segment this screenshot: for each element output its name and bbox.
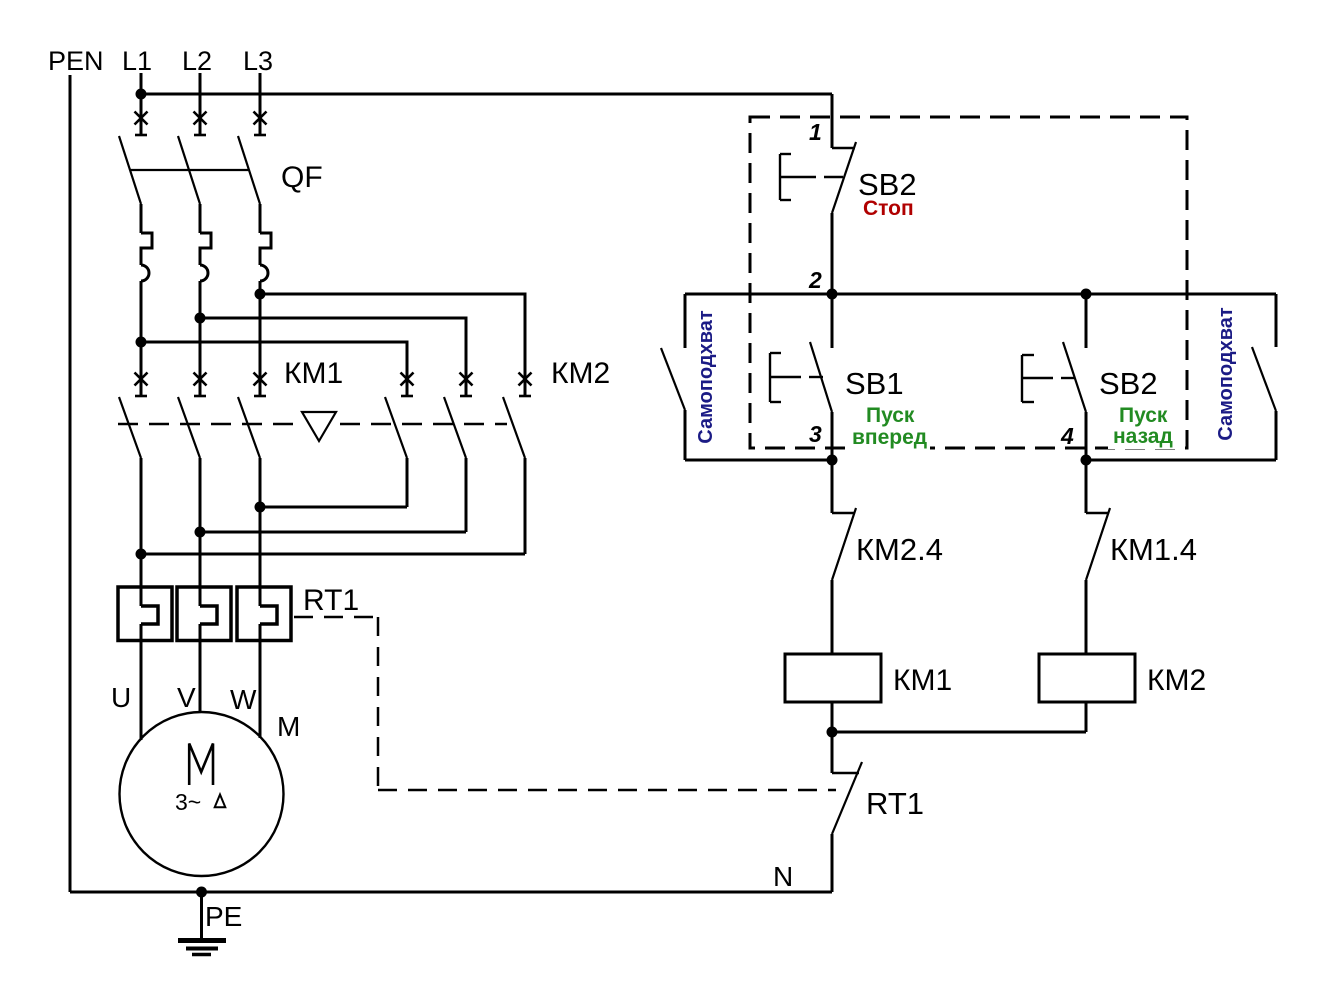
svg-text:M: M [277,711,300,742]
caption halo [1108,428,1178,449]
wire KM2.4 to coil KM1 [831,580,834,654]
svg-text:SB1: SB1 [845,366,904,401]
wire L3 to KM2 pole3 [260,294,525,396]
svg-text:4: 4 [1060,423,1074,449]
svg-text:V: V [177,682,196,713]
contact KM1.4 jog [1086,512,1108,514]
wire KM2 pole1 down [406,458,409,507]
button SB2 reverse blade [1063,342,1086,412]
wire control drop from bus [831,94,834,148]
junction dot crossover 1 [255,502,266,513]
contactor main blade 3 [238,397,260,458]
wire SB2 stop to node2 [831,213,834,294]
contactor main contact mark 2 [194,373,207,386]
motor M1 circle [120,712,284,876]
wire RT1 contact to N [831,834,834,892]
svg-text:SB2: SB2 [1099,366,1158,401]
wire coil KM2 down [1085,702,1088,732]
wire L2 drop [199,73,202,135]
wire W to motor [259,624,262,738]
wire phase 2 to RT1 [199,458,202,606]
button SB1 link dashed [770,376,823,378]
svg-text:PEN: PEN [48,46,104,76]
svg-text:КМ2: КМ2 [1147,664,1206,697]
coil KM2 [1039,654,1135,702]
junction dot right branch [1081,289,1092,300]
terminal tick L1 [135,134,147,137]
wire node4 down [1085,460,1088,513]
svg-text:Стоп: Стоп [863,197,914,220]
contactor main blade 6 [503,397,525,458]
svg-text:2: 2 [808,267,822,293]
wire right aux top [1275,294,1278,347]
contactor main contact mark 4 [401,373,414,386]
RT1 mechanical link dashed to contact [378,789,836,792]
wire left aux to node3 [685,459,832,462]
svg-text:КМ2: КМ2 [551,357,610,390]
wire V to motor [199,624,202,713]
junction dot L1 out [136,337,147,348]
motor letter M [189,744,213,786]
disconnect mark L2 [194,112,207,125]
contact RT1 jog [832,772,859,774]
wire node3 down [831,460,834,513]
terminal tick L3 [254,134,266,137]
breaker QF pole 1 blade [119,136,141,204]
wire KM1.4 to coil KM2 [1085,580,1088,654]
wire SB2r bottom [1085,412,1088,460]
wire L3 QF output [259,281,262,396]
svg-text:1: 1 [809,119,822,145]
junction dot coils [827,727,838,738]
caption halo [845,428,930,451]
svg-text:КМ1.4: КМ1.4 [1110,532,1197,567]
KM linkage dashed right [340,423,507,426]
KM linkage dashed left [118,423,298,426]
wire phase 1 to RT1 [140,458,143,606]
breaker QF linkage [130,169,249,171]
wire top bus L1 to control [141,93,832,96]
button SB2 stop fixed jog [832,147,855,149]
coil KM1 [785,654,881,702]
button SB2 reverse actuator [1022,355,1034,402]
button SB2 reverse link dashed [1022,377,1075,379]
thermal relay RT1 element 3 box [237,587,291,641]
button SB1 blade [810,342,832,412]
button SB2 stop link dashed [780,176,843,178]
svg-text:3~: 3~ [175,789,201,815]
aux contact KM1 blade left [661,348,685,410]
wire coil join [832,731,1086,734]
contact KM2.4 jog [832,512,854,514]
junction dot node 2 [827,289,838,300]
wire PE drop [200,892,203,938]
thermal relay RT1 heater 2 [200,606,217,624]
KM linkage triangle [302,412,336,441]
contactor main blade 5 [444,397,466,458]
contactor main contact mark 1 [135,373,148,386]
ground bar 1 [178,938,226,943]
wire coil KM1 down [831,702,834,732]
svg-text:КМ1: КМ1 [284,357,343,390]
wire KM2 pole3 down [524,458,527,554]
contactor terminal tick 5 [460,395,472,398]
contactor terminal tick 1 [135,395,147,398]
contactor main contact mark 5 [460,373,473,386]
breaker QF pole 1 thermal release [141,233,152,265]
thermal relay RT1 heater 1 [141,606,158,624]
junction dot L2 out [195,313,206,324]
button SB2 stop actuator [780,154,791,200]
wire crossover pole3 [141,553,525,556]
terminal tick L2 [194,134,206,137]
junction dot node 3 [827,455,838,466]
contact RT1 blade [832,762,862,834]
svg-text:Самоподхват: Самоподхват [695,310,717,444]
junction dot L3 out [255,289,266,300]
wire N bottom line [70,891,832,894]
wire to RT1 contact [831,732,834,773]
svg-text:N: N [773,861,793,892]
RT1 mechanical link dashed horizontal [294,616,378,619]
aux contact KM2 blade right [1252,347,1276,411]
contact KM2.4 blade [832,508,856,580]
ground bar 3 [192,953,211,957]
thermal relay RT1 element 1 box [118,587,172,641]
junction dot crossover 2 [195,527,206,538]
button SB2 stop blade [832,142,856,213]
svg-text:Самоподхват: Самоподхват [1215,307,1237,441]
junction dot motor PE [196,887,207,898]
wire L2 QF output [199,281,202,396]
thermal relay RT1 heater 3 [260,606,277,624]
svg-text:L2: L2 [182,46,212,76]
svg-text:вперед: вперед [852,426,927,449]
wire PEN vertical [69,75,72,892]
disconnect mark L3 [254,112,267,125]
breaker QF pole 2 thermal release [200,233,211,265]
wire U to motor [140,624,143,740]
contactor terminal tick 6 [519,395,531,398]
breaker QF pole 3 thermal release [260,233,271,265]
wire SB2r top [1085,294,1088,348]
contactor main blade 4 [385,397,407,458]
wire left aux top [684,294,687,348]
breaker QF pole 1 lead [140,204,143,233]
contactor main contact mark 6 [519,373,532,386]
contactor main contact mark 3 [254,373,267,386]
contactor terminal tick 4 [401,395,413,398]
svg-text:3: 3 [809,421,822,447]
svg-text:Пуск: Пуск [866,404,915,427]
breaker QF pole 3 blade [238,136,260,204]
breaker QF pole 1 magnetic release [141,265,149,281]
wire crossover pole2 [200,531,466,534]
svg-text:назад: назад [1113,425,1173,448]
junction dot node 4 [1081,455,1092,466]
wire L3 drop [259,73,262,135]
wire left aux bottom [684,410,687,460]
breaker QF pole 3 lead [259,204,262,233]
svg-text:U: U [111,682,131,713]
wire SB1 top [831,294,834,348]
svg-text:Пуск: Пуск [1119,404,1168,427]
svg-text:RT1: RT1 [866,786,924,821]
contact KM1.4 blade [1086,508,1110,580]
ground bar 2 [186,947,218,951]
breaker QF pole 2 magnetic release [200,265,208,281]
wire L1 to KM2 pole1 [141,342,407,396]
svg-text:КМ1: КМ1 [893,664,952,697]
svg-text:W: W [230,684,257,715]
junction dot L1 bus [136,89,147,100]
wire KM2 pole2 down [465,458,468,532]
button SB1 actuator [770,353,781,402]
contactor main blade 2 [178,397,200,458]
motor delta symbol [215,795,226,808]
thermal relay RT1 element 2 box [177,587,231,641]
svg-text:L1: L1 [122,46,152,76]
junction dot crossover 3 [136,549,147,560]
wire right aux to node4 [1086,459,1276,462]
svg-text:QF: QF [281,161,323,194]
svg-text:PE: PE [205,901,242,932]
breaker QF pole 2 lead [199,204,202,233]
RT1 mechanical link dashed vertical [377,617,380,790]
wire L1 drop [140,73,143,135]
wire L2 to KM2 pole2 [200,318,466,396]
contactor terminal tick 2 [194,395,206,398]
control dashed box [750,117,1187,448]
breaker QF pole 2 blade [178,136,200,204]
disconnect mark L1 [135,112,148,125]
svg-text:RT1: RT1 [303,584,359,617]
wire L1 QF output [140,281,143,396]
wire control bus node2 [685,293,1276,296]
contactor main blade 1 [119,397,141,458]
svg-text:L3: L3 [243,46,273,76]
contactor terminal tick 3 [254,395,266,398]
breaker QF pole 3 magnetic release [260,265,268,281]
wire phase 3 to RT1 [259,458,262,606]
wire crossover pole1 [260,506,407,509]
svg-text:КМ2.4: КМ2.4 [856,532,943,567]
wire SB1 bottom [831,412,834,460]
wire right aux bottom [1275,411,1278,460]
